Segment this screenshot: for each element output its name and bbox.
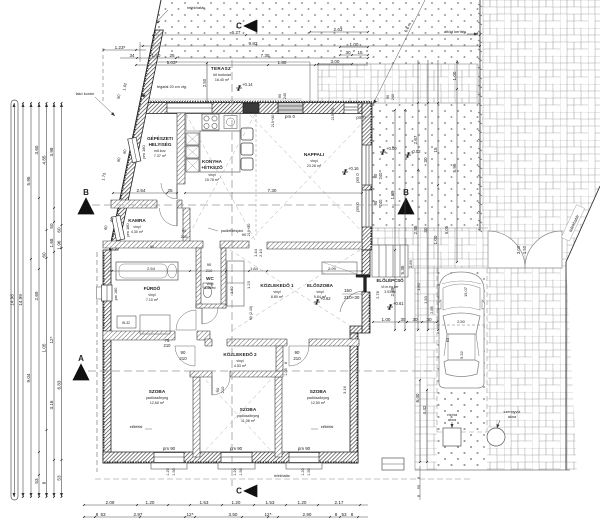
svg-text:12⁵: 12⁵ xyxy=(264,512,271,517)
east wall window 1 xyxy=(362,145,372,185)
svg-text:53: 53 xyxy=(341,512,347,517)
svg-text:8: 8 xyxy=(41,481,46,484)
svg-text:lakó kontúr: lakó kontúr xyxy=(76,92,95,96)
svg-text:pm 0: pm 0 xyxy=(355,173,360,183)
wc toilet xyxy=(203,283,212,288)
svg-text:1.05: 1.05 xyxy=(284,368,288,375)
marker B left xyxy=(78,198,94,214)
svg-text:TERASZ: TERASZ xyxy=(211,66,231,71)
bottom telekhatar dashed xyxy=(95,478,470,480)
insulation dotted line above wall xyxy=(303,100,370,102)
svg-text:5.95: 5.95 xyxy=(26,176,31,185)
svg-text:1.50: 1.50 xyxy=(172,468,176,475)
svg-text:2.54: 2.54 xyxy=(147,266,156,271)
svg-text:ELŐSZOBA: ELŐSZOBA xyxy=(307,282,334,288)
svg-text:1.84: 1.84 xyxy=(250,266,259,271)
svg-text:padlószőnyeg: padlószőnyeg xyxy=(146,396,168,400)
section line C-C vertical xyxy=(231,60,233,486)
roof dashed diagonals konyha xyxy=(186,114,255,240)
svg-text:4.42: 4.42 xyxy=(422,405,427,414)
svg-text:1.23⁵: 1.23⁵ xyxy=(115,45,126,50)
svg-text:210: 210 xyxy=(206,268,213,273)
svg-text:8: 8 xyxy=(284,362,288,364)
east wall entry section xyxy=(362,250,370,277)
svg-text:NAPPALI: NAPPALI xyxy=(304,152,324,157)
svg-text:8: 8 xyxy=(335,512,338,517)
bottom dimension row 1 xyxy=(84,504,368,506)
marker C top xyxy=(244,20,257,32)
svg-text:pm 180: pm 180 xyxy=(141,145,146,159)
telekhatar label right (rotated) xyxy=(561,205,584,241)
slanted west retaining wall xyxy=(109,30,163,250)
gepeszeti door arc xyxy=(161,183,177,199)
svg-text:210: 210 xyxy=(164,343,172,348)
svg-text:ELŐLÉPCSŐ: ELŐLÉPCSŐ xyxy=(376,278,404,283)
svg-text:SZOBA: SZOBA xyxy=(310,389,327,394)
level marks nappali entry xyxy=(380,149,386,155)
svg-text:FÜRDŐ: FÜRDŐ xyxy=(144,285,161,291)
svg-text:pm 90: pm 90 xyxy=(163,446,176,451)
svg-text:1.50: 1.50 xyxy=(307,468,311,475)
szoba2 left wall xyxy=(193,377,200,457)
southeast corner step xyxy=(382,458,404,470)
svg-text:9.83: 9.83 xyxy=(249,41,258,46)
marker B right xyxy=(398,198,414,214)
west wall lower vertical xyxy=(103,250,111,463)
svg-text:210: 210 xyxy=(179,356,187,361)
svg-text:C: C xyxy=(236,487,242,496)
svg-text:vinyl: vinyl xyxy=(133,225,140,229)
top right dims xyxy=(310,31,368,33)
svg-text:210: 210 xyxy=(293,356,301,361)
svg-text:210+30: 210+30 xyxy=(247,224,251,237)
svg-text:25: 25 xyxy=(169,53,175,58)
svg-text:2.63: 2.63 xyxy=(334,27,343,32)
svg-text:150: 150 xyxy=(344,288,352,293)
east wall window 2 xyxy=(362,190,372,227)
stove xyxy=(202,114,219,130)
svg-text:1.80: 1.80 xyxy=(278,60,287,65)
brick paving upper right xyxy=(482,0,600,470)
wc door arc (bottom) xyxy=(202,303,220,309)
svg-text:vinyl: vinyl xyxy=(208,173,215,177)
svg-text:1.53: 1.53 xyxy=(266,500,275,505)
svg-text:pm 180: pm 180 xyxy=(125,223,130,237)
top wall window pm0 xyxy=(278,103,303,114)
svg-text:90: 90 xyxy=(278,94,282,98)
svg-text:7.30: 7.30 xyxy=(268,188,277,193)
svg-text:5.35: 5.35 xyxy=(400,265,405,274)
svg-text:30: 30 xyxy=(426,317,432,322)
furdo door arc xyxy=(176,310,196,330)
svg-text:90: 90 xyxy=(182,228,187,233)
svg-text:+0.00: +0.00 xyxy=(386,146,397,151)
6.6m slanted line xyxy=(373,0,425,104)
svg-text:3.16: 3.16 xyxy=(49,400,54,409)
svg-text:50: 50 xyxy=(49,223,54,229)
svg-text:pm 90: pm 90 xyxy=(298,446,311,451)
svg-text:+0.62: +0.62 xyxy=(320,296,331,301)
svg-text:vinyl: vinyl xyxy=(310,159,317,163)
corridor2 right wall stub xyxy=(276,346,283,371)
svg-text:5.05: 5.05 xyxy=(444,225,449,234)
svg-text:16.40 m²: 16.40 m² xyxy=(215,78,230,82)
svg-text:1.50: 1.50 xyxy=(152,53,161,58)
left dimension chains xyxy=(11,100,18,500)
svg-text:3.16: 3.16 xyxy=(342,385,347,394)
west wall window pm180 upper xyxy=(128,137,141,162)
bottom window 1 xyxy=(154,453,184,463)
house top wall xyxy=(140,103,362,114)
water meter shaft xyxy=(443,428,461,446)
entry area dims xyxy=(373,321,407,323)
wc left wall xyxy=(196,248,201,308)
bottom window 3 xyxy=(289,453,319,463)
svg-text:6.83: 6.83 xyxy=(56,380,61,389)
svg-text:+0.61: +0.61 xyxy=(393,301,404,306)
svg-text:210: 210 xyxy=(220,386,225,393)
svg-text:2.85: 2.85 xyxy=(413,225,418,234)
brick strip north of living room xyxy=(318,64,478,103)
east wall below door xyxy=(362,292,370,333)
washing machine xyxy=(140,315,170,334)
svg-text:2.90: 2.90 xyxy=(303,512,312,517)
svg-text:240: 240 xyxy=(391,94,395,100)
svg-text:+0.16: +0.16 xyxy=(348,166,359,171)
svg-text:KÖZLEKEDŐ 2: KÖZLEKEDŐ 2 xyxy=(223,351,257,357)
konyha nappali floor divider xyxy=(255,114,257,236)
car stall dashed borders xyxy=(436,268,438,432)
bottom dimension row 2 xyxy=(84,516,368,518)
svg-text:90: 90 xyxy=(295,350,300,355)
svg-text:1.40 m²: 1.40 m² xyxy=(204,286,216,290)
bottom window 2 xyxy=(221,453,252,463)
svg-text:12,60 m²: 12,60 m² xyxy=(150,401,165,405)
svg-text:2.67: 2.67 xyxy=(413,135,418,144)
svg-text:SZOBA: SZOBA xyxy=(149,389,166,394)
furdo west window pm 180 xyxy=(102,285,113,301)
svg-text:2.89: 2.89 xyxy=(408,259,413,268)
svg-text:210+30: 210+30 xyxy=(331,108,335,121)
furdo bottom wall xyxy=(103,331,210,340)
chairs xyxy=(241,128,253,140)
svg-text:telekhatár: telekhatár xyxy=(187,5,205,10)
svg-text:szennyvíz: szennyvíz xyxy=(504,410,521,414)
svg-text:telekhatár: telekhatár xyxy=(274,474,291,478)
eloszoba closet xyxy=(322,262,357,274)
interior dims row xyxy=(113,192,177,194)
svg-text:5.03⁵: 5.03⁵ xyxy=(167,60,178,65)
svg-text:11,08 m²: 11,08 m² xyxy=(241,419,256,423)
middle wall (corridor top) xyxy=(103,241,203,248)
top wall window right (pm 0) xyxy=(344,103,358,114)
svg-text:53: 53 xyxy=(100,512,106,517)
svg-text:90: 90 xyxy=(207,262,212,267)
fence line attort kerites xyxy=(479,0,481,230)
svg-text:+0.14: +0.14 xyxy=(242,82,253,87)
gate swing arcs xyxy=(488,231,525,268)
roof dashed diagonals szoba2 xyxy=(201,375,275,455)
svg-text:2.10: 2.10 xyxy=(258,248,263,257)
top wall window left xyxy=(167,103,212,113)
section line A-A horizontal xyxy=(88,370,443,372)
walkway borders xyxy=(372,227,488,229)
svg-text:210+30: 210+30 xyxy=(344,295,360,300)
svg-text:A: A xyxy=(78,354,84,363)
svg-text:9.32: 9.32 xyxy=(459,350,464,359)
washbasin W-32 xyxy=(117,316,136,328)
svg-text:padlószőnyeg: padlószőnyeg xyxy=(307,396,329,400)
svg-text:2.69: 2.69 xyxy=(34,291,39,300)
svg-text:8.80 m²: 8.80 m² xyxy=(271,295,284,299)
roof dashed diagonals corridor xyxy=(230,250,360,332)
svg-text:6.40: 6.40 xyxy=(415,393,420,402)
svg-text:7.10 m²: 7.10 m² xyxy=(146,298,159,302)
svg-text:14.98: 14.98 xyxy=(9,294,14,306)
svg-text:30: 30 xyxy=(400,317,406,322)
section line B-B horizontal xyxy=(92,204,400,206)
svg-text:1.20: 1.20 xyxy=(301,468,305,475)
svg-text:53: 53 xyxy=(445,337,450,342)
svg-text:7.30: 7.30 xyxy=(261,53,270,58)
svg-text:53: 53 xyxy=(56,475,61,481)
wc right wall xyxy=(221,248,226,308)
svg-text:1.20: 1.20 xyxy=(298,500,307,505)
svg-text:áttört kerítés: áttört kerítés xyxy=(444,29,466,34)
svg-text:30: 30 xyxy=(412,317,418,322)
svg-text:2.78: 2.78 xyxy=(375,290,380,299)
svg-text:vízóra: vízóra xyxy=(447,413,458,417)
svg-text:2.54: 2.54 xyxy=(137,188,146,193)
svg-text:12⁵: 12⁵ xyxy=(186,512,193,517)
svg-text:90: 90 xyxy=(386,95,390,99)
svg-text:2.09: 2.09 xyxy=(106,500,115,505)
svg-text:1.80: 1.80 xyxy=(416,282,421,291)
west wall window pm180 lower (kamra) xyxy=(112,215,125,240)
svg-text:1.20: 1.20 xyxy=(233,468,237,475)
svg-text:30: 30 xyxy=(423,157,428,163)
marker A right xyxy=(440,366,456,382)
svg-text:3.00: 3.00 xyxy=(516,245,521,254)
svg-text:pm 0: pm 0 xyxy=(355,202,360,212)
svg-text:1.50: 1.50 xyxy=(522,245,527,254)
svg-text:-0.02: -0.02 xyxy=(411,149,421,154)
svg-text:1.89: 1.89 xyxy=(390,190,395,199)
svg-text:WC: WC xyxy=(206,276,214,281)
svg-text:1.68: 1.68 xyxy=(49,238,54,247)
right boundary line xyxy=(566,186,600,262)
svg-text:3.00: 3.00 xyxy=(331,59,340,64)
svg-text:padlófűtésjáró: padlófűtésjáró xyxy=(221,229,244,233)
svg-text:2.50: 2.50 xyxy=(457,319,466,324)
svg-text:B: B xyxy=(403,188,409,197)
svg-text:7.37 m²: 7.37 m² xyxy=(154,154,167,158)
svg-text:4.53 m²: 4.53 m² xyxy=(234,364,247,368)
svg-text:3.50: 3.50 xyxy=(229,512,238,517)
car in driveway xyxy=(439,272,485,388)
svg-text:GÉPÉSZETI: GÉPÉSZETI xyxy=(147,134,173,141)
svg-text:W-32: W-32 xyxy=(122,321,130,325)
svg-text:2.17: 2.17 xyxy=(335,500,344,505)
svg-text:1.00: 1.00 xyxy=(350,42,359,47)
kitchen counter xyxy=(186,113,240,131)
svg-text:9.04: 9.04 xyxy=(26,373,31,382)
svg-text:14.99: 14.99 xyxy=(18,294,23,306)
svg-text:15: 15 xyxy=(433,147,438,153)
east wall lower (szoba) xyxy=(350,333,358,463)
wall gepeszeti/kamra xyxy=(111,200,182,208)
svg-text:vinyl: vinyl xyxy=(316,290,323,294)
house bottom wall xyxy=(103,452,358,463)
svg-text:vinyl: vinyl xyxy=(236,359,243,363)
terrace outline xyxy=(148,61,310,63)
svg-text:8: 8 xyxy=(96,512,99,517)
svg-text:60: 60 xyxy=(41,252,46,258)
svg-text:+ÉTKEZŐ: +ÉTKEZŐ xyxy=(201,163,223,170)
svg-text:akna: akna xyxy=(448,418,457,422)
svg-text:1.50: 1.50 xyxy=(423,295,428,304)
svg-text:1.20: 1.20 xyxy=(146,500,155,505)
kitchen sink xyxy=(224,116,237,129)
svg-text:1.00: 1.00 xyxy=(382,317,391,322)
svg-text:akna: akna xyxy=(508,415,517,419)
driveway bottom edge xyxy=(415,469,570,471)
svg-text:3.98: 3.98 xyxy=(49,147,54,156)
fridge and cabinets xyxy=(186,133,199,145)
svg-text:90: 90 xyxy=(150,244,155,249)
svg-text:5.95: 5.95 xyxy=(452,163,457,172)
svg-text:30: 30 xyxy=(423,227,428,233)
left top block vertical dashes xyxy=(102,48,104,103)
svg-text:előtétfal: előtétfal xyxy=(321,425,334,429)
svg-text:KAMRA: KAMRA xyxy=(128,218,146,223)
svg-text:240: 240 xyxy=(378,172,383,180)
svg-text:1.00: 1.00 xyxy=(452,71,457,80)
svg-text:3.60: 3.60 xyxy=(34,145,39,154)
svg-text:12⁵: 12⁵ xyxy=(49,336,54,343)
stipple region top (plot ground) xyxy=(148,0,480,62)
svg-text:1.00: 1.00 xyxy=(433,235,438,244)
svg-text:SZOBA: SZOBA xyxy=(240,407,257,412)
szoba1 door arc xyxy=(175,346,195,366)
svg-text:1.20: 1.20 xyxy=(166,468,170,475)
svg-text:tégafal 20 cm vtg.: tégafal 20 cm vtg. xyxy=(157,85,187,89)
svg-text:60: 60 xyxy=(56,227,61,233)
szoba2 top wall xyxy=(190,371,212,377)
szoba2/3 wall xyxy=(275,377,282,457)
svg-text:90 (2.10): 90 (2.10) xyxy=(249,306,253,320)
kamra door arc xyxy=(157,199,177,209)
svg-text:pm 0: pm 0 xyxy=(285,114,296,119)
svg-text:2.97: 2.97 xyxy=(134,512,143,517)
east wall upper (nappali) xyxy=(362,103,372,250)
svg-text:90: 90 xyxy=(181,350,186,355)
bathtub xyxy=(116,262,178,280)
svg-text:vinyl: vinyl xyxy=(148,293,155,297)
svg-text:B: B xyxy=(83,188,89,197)
wc bottom wall xyxy=(196,304,226,308)
svg-text:210+30: 210+30 xyxy=(271,115,275,128)
svg-text:pm 180: pm 180 xyxy=(114,288,118,301)
szoba2 door leaf and arc xyxy=(211,377,213,395)
svg-text:1.23: 1.23 xyxy=(246,280,251,289)
marker C bottom xyxy=(244,485,257,497)
elolepcso entry steps xyxy=(372,245,408,277)
svg-text:4.85: 4.85 xyxy=(41,155,46,164)
front door opening xyxy=(356,275,370,278)
svg-text:6.27: 6.27 xyxy=(232,30,241,35)
brick driveway left strip xyxy=(415,268,437,470)
wall gepeszeti/konyha xyxy=(177,113,185,184)
top dimension lines xyxy=(153,34,480,36)
plot boundary line (telekhatar) xyxy=(109,0,161,252)
svg-text:53: 53 xyxy=(34,478,39,484)
sewage shaft xyxy=(487,428,505,446)
svg-text:1.96: 1.96 xyxy=(56,240,61,249)
svg-text:12,50 m²: 12,50 m² xyxy=(311,401,326,405)
svg-text:25: 25 xyxy=(167,188,173,193)
kamra east wall xyxy=(183,208,190,242)
svg-text:vinyl: vinyl xyxy=(273,290,280,294)
svg-text:8: 8 xyxy=(351,512,354,517)
svg-text:1.52: 1.52 xyxy=(229,285,234,294)
svg-text:2.50: 2.50 xyxy=(202,78,207,87)
brick walkway to entrance xyxy=(372,228,488,268)
svg-text:2.85: 2.85 xyxy=(429,305,434,314)
svg-text:kő burkolat: kő burkolat xyxy=(213,73,231,77)
svg-text:30: 30 xyxy=(345,50,351,55)
svg-text:240: 240 xyxy=(283,93,287,99)
svg-text:15: 15 xyxy=(357,50,363,55)
svg-text:2.89: 2.89 xyxy=(390,287,395,296)
svg-text:34: 34 xyxy=(129,53,135,58)
svg-text:pm 0: pm 0 xyxy=(356,115,366,120)
svg-text:1.05: 1.05 xyxy=(41,343,46,352)
svg-text:mű.kov.: mű.kov. xyxy=(154,149,166,153)
bottom right vertical dims xyxy=(419,380,421,462)
top wall dark lintel xyxy=(243,103,259,113)
dining table xyxy=(200,131,240,172)
southeast step wall xyxy=(350,326,362,333)
svg-text:1.50: 1.50 xyxy=(239,468,243,475)
svg-text:15.78 m²: 15.78 m² xyxy=(205,178,220,182)
svg-text:KONYHA: KONYHA xyxy=(202,159,223,164)
terrace dim 2.50 xyxy=(206,63,208,103)
brick driveway right of car xyxy=(487,268,566,470)
svg-text:HELYISÉG: HELYISÉG xyxy=(149,140,172,147)
svg-text:előtétfal: előtétfal xyxy=(130,425,143,429)
svg-text:4.30 m²: 4.30 m² xyxy=(131,230,144,234)
roof dashed diagonals nappali xyxy=(250,115,370,240)
svg-text:KÖZLEKEDŐ 1: KÖZLEKEDŐ 1 xyxy=(260,282,294,288)
marker A left xyxy=(73,364,89,380)
svg-text:1.20: 1.20 xyxy=(232,500,241,505)
svg-text:15.07: 15.07 xyxy=(463,286,468,297)
hall cabinet xyxy=(227,261,244,306)
svg-text:1.53: 1.53 xyxy=(200,500,209,505)
svg-text:2.99: 2.99 xyxy=(328,266,337,271)
szoba3 door arc xyxy=(289,346,309,366)
stipple region east band xyxy=(366,62,480,470)
right side vertical dims xyxy=(394,110,396,330)
